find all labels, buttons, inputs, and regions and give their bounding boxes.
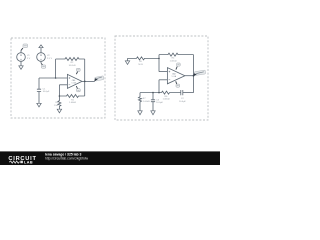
svg-text:5 V: 5 V <box>27 58 31 60</box>
svg-text:http://circuitlab.com/c/kgbfol: http://circuitlab.com/c/kgbfolw <box>45 157 89 161</box>
svg-text:10.0µF: 10.0µF <box>179 101 186 103</box>
svg-text:10.0µF: 10.0µF <box>156 102 163 104</box>
svg-text:5 OA: 5 OA <box>71 81 76 84</box>
svg-text:1.00kΩ: 1.00kΩ <box>143 101 150 103</box>
svg-text:2.5 V: 2.5 V <box>47 58 53 60</box>
svg-text:LAB: LAB <box>24 161 33 165</box>
svg-text:1.00kΩ: 1.00kΩ <box>163 99 170 101</box>
svg-text:1.00kΩ: 1.00kΩ <box>69 102 76 104</box>
svg-text:10.0µF: 10.0µF <box>43 91 50 93</box>
svg-text:1.00kΩ: 1.00kΩ <box>170 60 177 62</box>
svg-text:1 kΩ: 1 kΩ <box>54 105 59 107</box>
svg-text:5 OA: 5 OA <box>172 75 177 78</box>
svg-text:50 Ω: 50 Ω <box>138 64 143 66</box>
svg-text:10.0kΩ: 10.0kΩ <box>69 65 76 67</box>
